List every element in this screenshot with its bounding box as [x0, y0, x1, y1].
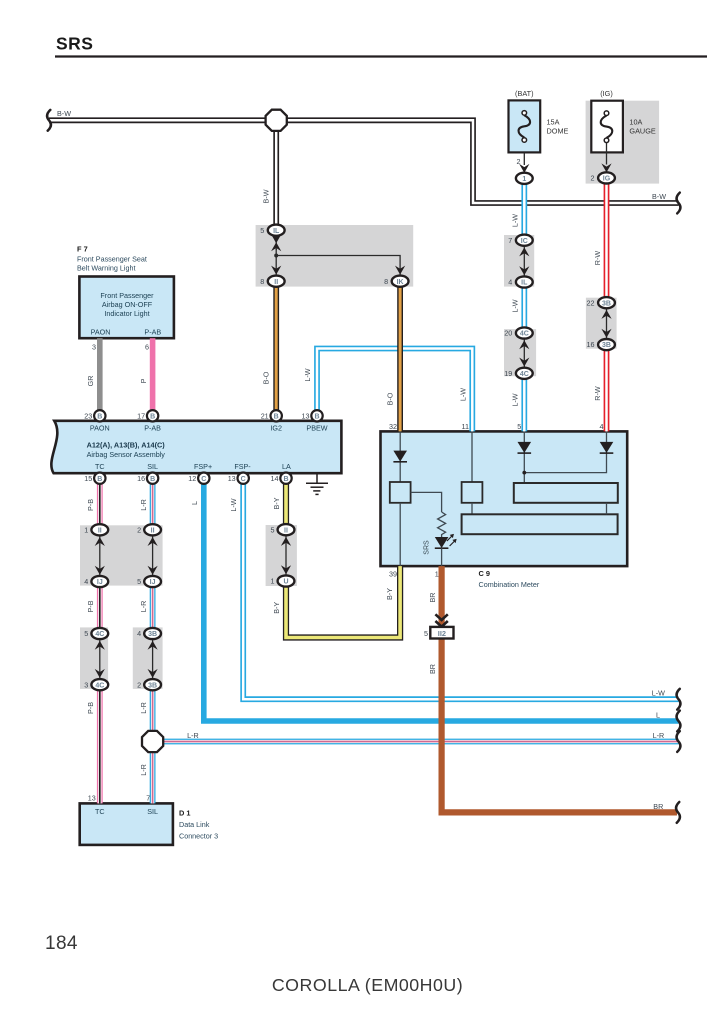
svg-text:L-R: L-R: [139, 702, 148, 714]
svg-text:L-R: L-R: [139, 499, 148, 511]
svg-text:5: 5: [424, 629, 428, 638]
wire L-W PBEW to C9 pin 11: [317, 349, 472, 432]
svg-text:39: 39: [389, 570, 397, 579]
wire B-Y LA seg1: [283, 478, 289, 530]
connector oval II pin 8: [260, 276, 284, 287]
svg-text:5: 5: [137, 577, 141, 586]
svg-text:16: 16: [137, 474, 145, 483]
svg-text:B-W: B-W: [261, 189, 270, 203]
fuse 15A DOME symbol: [519, 111, 531, 143]
F7 inner text: [91, 291, 162, 337]
wire L-W FSP- to right edge: [243, 478, 678, 699]
junction arrows 3B right: [601, 303, 611, 345]
svg-text:Belt Warning Light: Belt Warning Light: [77, 264, 135, 273]
connector oval IC pin 7: [508, 235, 532, 246]
svg-text:5: 5: [84, 629, 88, 638]
junction arrows 3B left: [148, 634, 158, 685]
svg-text:L-R: L-R: [187, 731, 199, 740]
component F7 box: [79, 277, 173, 339]
svg-text:5: 5: [260, 226, 264, 235]
svg-text:IL: IL: [521, 280, 528, 287]
svg-text:DOME: DOME: [547, 126, 569, 135]
svg-text:L-R: L-R: [139, 601, 148, 613]
svg-text:Front Passenger: Front Passenger: [100, 291, 154, 300]
svg-text:4C: 4C: [520, 371, 529, 378]
svg-text:PAON: PAON: [91, 328, 111, 337]
svg-text:B-O: B-O: [385, 392, 394, 405]
svg-text:13: 13: [228, 474, 236, 483]
wire P-B seg2: [97, 582, 103, 634]
svg-text:U: U: [283, 579, 288, 586]
svg-text:COROLLA (EM00H0U): COROLLA (EM00H0U): [272, 975, 463, 995]
connector oval II pin 1: [84, 524, 108, 535]
pin circle airbag pin 13 C: [228, 473, 249, 484]
svg-text:GR: GR: [86, 376, 95, 387]
svg-text:3B: 3B: [148, 682, 157, 689]
pin circle airbag pin 14 B: [271, 473, 292, 484]
svg-text:13: 13: [88, 794, 96, 803]
svg-text:SRS: SRS: [424, 540, 431, 555]
svg-text:B: B: [97, 476, 102, 483]
C9 internal circuit: [390, 431, 618, 566]
junction arrows IC-IL: [519, 240, 529, 282]
svg-text:B-Y: B-Y: [385, 588, 394, 600]
connector block IL/II/IK: [256, 225, 414, 287]
svg-text:B-W: B-W: [652, 192, 666, 201]
C9 pin numbers top: [389, 422, 604, 431]
svg-text:(IG): (IG): [600, 89, 613, 98]
wire break L-W right: [677, 689, 681, 710]
svg-text:3: 3: [84, 680, 88, 689]
svg-text:14: 14: [271, 474, 279, 483]
svg-text:L-R: L-R: [139, 764, 148, 776]
junction octagon L-R tap: [142, 731, 163, 752]
wire R-W fuse-3B segment: [604, 178, 610, 303]
svg-text:PAON: PAON: [90, 423, 110, 432]
connector oval IL pin 4: [508, 276, 532, 287]
svg-text:19: 19: [504, 369, 512, 378]
connector oval 3B pin 2: [137, 679, 161, 690]
connector oval II pin 2: [137, 524, 161, 535]
svg-text:IJ: IJ: [97, 579, 103, 586]
svg-text:Airbag ON-OFF: Airbag ON-OFF: [102, 300, 153, 309]
svg-text:8: 8: [260, 277, 264, 286]
airbag box inner labels: [87, 423, 328, 471]
svg-text:BR: BR: [653, 802, 663, 811]
svg-text:4C: 4C: [95, 682, 104, 689]
pin circle airbag pin 12 C: [188, 473, 209, 484]
connector oval 4C pin 3: [84, 679, 108, 690]
pin circle F7 pin 23 B: [84, 410, 105, 421]
svg-text:1: 1: [271, 577, 275, 586]
svg-text:II: II: [274, 279, 278, 286]
svg-text:21: 21: [261, 411, 269, 420]
junction arrows 4C right: [519, 333, 529, 373]
C9 name: [479, 569, 540, 589]
connector block II/U: [266, 525, 297, 586]
svg-text:L-W: L-W: [510, 214, 519, 227]
svg-text:LA: LA: [282, 462, 291, 471]
connector block 4C left: [80, 627, 108, 689]
wire L-R branch to right edge: [153, 739, 679, 745]
svg-text:II: II: [284, 527, 288, 534]
svg-text:C: C: [241, 476, 246, 483]
wire break right B-W: [677, 193, 681, 214]
D1 pin numbers: [88, 794, 150, 803]
svg-text:L: L: [190, 501, 199, 505]
connector oval 3B pin 16: [587, 339, 615, 350]
svg-text:16: 16: [587, 340, 595, 349]
svg-text:L: L: [656, 710, 660, 719]
svg-text:L-W: L-W: [510, 299, 519, 312]
svg-text:IG: IG: [603, 176, 611, 183]
svg-text:B: B: [97, 413, 102, 420]
svg-text:PBEW: PBEW: [306, 423, 327, 432]
wire R-W 3B-C9 segment: [604, 345, 610, 432]
connector block 3B right: [586, 298, 617, 349]
svg-text:B-Y: B-Y: [272, 602, 281, 614]
connector II2: [424, 627, 454, 639]
D1 inner labels: [95, 807, 158, 816]
svg-text:Front Passenger Seat: Front Passenger Seat: [77, 255, 147, 264]
svg-text:P: P: [139, 378, 148, 383]
F7 pin numbers: [92, 343, 149, 352]
title rule: [55, 55, 707, 57]
svg-text:12: 12: [188, 474, 196, 483]
connector oval IK pin 8: [384, 276, 408, 287]
svg-text:L-W: L-W: [303, 368, 312, 381]
connector oval 4C pin 5: [84, 628, 108, 639]
svg-text:2: 2: [517, 157, 521, 166]
svg-text:4: 4: [508, 278, 512, 287]
svg-text:L-W: L-W: [652, 689, 665, 698]
svg-text:BR: BR: [428, 664, 437, 674]
svg-text:3B: 3B: [602, 342, 611, 349]
svg-text:1: 1: [84, 525, 88, 534]
pin circle airbag pin 13 B: [302, 410, 323, 421]
svg-text:L-W: L-W: [510, 393, 519, 406]
C9 pin numbers bottom: [389, 570, 439, 579]
connector oval U pin 1: [271, 575, 295, 586]
wire B-Y seg2 to C9 pin 39: [286, 566, 400, 637]
svg-text:IG2: IG2: [270, 423, 282, 432]
svg-text:5: 5: [271, 525, 275, 534]
svg-text:20: 20: [504, 329, 512, 338]
wire L-W 4C-C9 segment: [521, 373, 527, 431]
pin circle F7 pin 17 B: [137, 410, 158, 421]
svg-text:4C: 4C: [95, 631, 104, 638]
svg-text:L-R: L-R: [653, 731, 665, 740]
wire break L right: [677, 711, 681, 732]
connector oval IL pin 5: [260, 225, 284, 236]
junction arrows 4C left: [95, 634, 105, 685]
fuse 15A DOME box: [509, 100, 541, 152]
svg-text:SRS: SRS: [56, 34, 93, 54]
svg-text:B-O: B-O: [262, 371, 271, 384]
svg-text:FSP-: FSP-: [234, 462, 251, 471]
svg-text:TC: TC: [95, 807, 105, 816]
svg-text:II2: II2: [438, 629, 446, 638]
svg-text:22: 22: [587, 298, 595, 307]
svg-text:7: 7: [146, 794, 150, 803]
svg-text:IC: IC: [521, 238, 528, 245]
svg-text:SIL: SIL: [147, 807, 158, 816]
svg-text:2: 2: [137, 680, 141, 689]
wire L-R seg3 to D1: [150, 685, 156, 804]
svg-text:3B: 3B: [602, 300, 611, 307]
svg-text:B-Y: B-Y: [272, 497, 281, 509]
svg-text:IL: IL: [273, 228, 280, 235]
svg-text:L-W: L-W: [229, 498, 238, 511]
svg-text:2: 2: [591, 174, 595, 183]
svg-text:3B: 3B: [148, 631, 157, 638]
wire L-R SIL seg1: [150, 478, 156, 530]
svg-text:A12(A), A13(B), A14(C): A12(A), A13(B), A14(C): [87, 441, 166, 450]
svg-text:D 1: D 1: [179, 809, 191, 818]
junction octagon B-W tap: [266, 110, 287, 131]
svg-text:Combination Meter: Combination Meter: [479, 580, 540, 589]
svg-text:1: 1: [435, 570, 439, 579]
connector block IG gauge area: [586, 101, 660, 184]
junction node and branch IL/II/IK: [271, 249, 405, 277]
wire P wire F7 pin6: [150, 338, 156, 416]
svg-text:P-B: P-B: [86, 600, 95, 612]
wire L FSP+ to right edge: [204, 478, 679, 721]
wire B-O IK to C9 pin 32: [397, 287, 403, 432]
svg-text:2: 2: [137, 525, 141, 534]
svg-text:17: 17: [137, 411, 145, 420]
svg-text:4: 4: [600, 422, 604, 431]
wire B-W drop to IL: [273, 120, 279, 230]
svg-text:10A: 10A: [629, 117, 642, 126]
wire L-W IL-4C segment: [521, 282, 527, 333]
svg-text:P-B: P-B: [86, 499, 95, 511]
svg-text:P-B: P-B: [86, 702, 95, 714]
svg-text:L-W: L-W: [459, 388, 468, 401]
svg-text:11: 11: [462, 422, 469, 431]
svg-text:7: 7: [508, 236, 512, 245]
junction arrows II-IJ col TC: [95, 530, 105, 582]
svg-text:SIL: SIL: [147, 462, 158, 471]
svg-text:B: B: [274, 413, 279, 420]
svg-text:II: II: [151, 527, 155, 534]
svg-text:IJ: IJ: [150, 579, 156, 586]
ground symbol: [306, 473, 328, 494]
svg-text:184: 184: [45, 933, 78, 954]
svg-text:F 7: F 7: [77, 245, 88, 254]
pin circle airbag pin 16 B: [137, 473, 158, 484]
fuse BAT pin 2 lead: [517, 152, 530, 173]
svg-text:4C: 4C: [520, 331, 529, 338]
connector oval II pin 5: [271, 524, 295, 535]
svg-text:23: 23: [84, 411, 92, 420]
component D1 Data Link Connector box: [80, 803, 173, 845]
svg-text:P-AB: P-AB: [144, 423, 161, 432]
pin circle airbag pin 21 B: [261, 410, 282, 421]
connector oval IG pin 2: [591, 172, 615, 183]
connector oval IJ pin 5: [137, 576, 161, 587]
D1 name: [179, 809, 218, 841]
svg-text:1: 1: [522, 176, 526, 183]
svg-text:IK: IK: [397, 279, 404, 286]
wire break BR right: [676, 802, 680, 823]
connector block II/IJ: [80, 525, 163, 585]
svg-text:Connector 3: Connector 3: [179, 832, 218, 841]
svg-text:13: 13: [302, 411, 310, 420]
fuse IG labels: [600, 89, 656, 135]
svg-text:C: C: [201, 476, 206, 483]
fuse BAT labels: [515, 89, 568, 135]
svg-text:15: 15: [84, 474, 92, 483]
wire break L-R right: [677, 731, 681, 752]
svg-text:4: 4: [84, 577, 88, 586]
wire GR wire F7 pin3: [97, 338, 103, 416]
junction arrows II-IJ col SIL: [148, 530, 158, 582]
wire P-B TC seg1: [97, 478, 103, 530]
svg-text:B: B: [150, 476, 155, 483]
fuse IG pin 2 lead: [601, 143, 611, 173]
svg-text:4: 4: [137, 629, 141, 638]
svg-text:GAUGE: GAUGE: [629, 126, 655, 135]
svg-text:6: 6: [145, 343, 149, 352]
junction arrows IL-II: [271, 234, 281, 251]
connector oval 4C pin 19: [504, 368, 532, 379]
svg-text:(BAT): (BAT): [515, 89, 534, 98]
svg-text:R-W: R-W: [593, 386, 602, 401]
connector oval 3B pin 22: [587, 297, 615, 308]
wire L-W fuse-IC segment: [521, 178, 527, 240]
svg-text:8: 8: [384, 277, 388, 286]
pin circle airbag pin 15 B: [84, 473, 105, 484]
junction arrows II-U: [281, 530, 291, 581]
connector oval fuse output 1: [516, 173, 533, 184]
connector block IC/IL: [504, 235, 534, 287]
wire B-W main feed: [49, 120, 679, 203]
connector block 3B left: [133, 627, 163, 689]
svg-text:P-AB: P-AB: [144, 328, 161, 337]
svg-text:B: B: [314, 413, 319, 420]
svg-text:R-W: R-W: [593, 251, 602, 266]
F7 designator text: [77, 245, 147, 273]
svg-text:Airbag Sensor Assembly: Airbag Sensor Assembly: [87, 450, 166, 459]
wire BR C9 pin1 to right edge: [442, 566, 677, 812]
svg-text:B: B: [150, 413, 155, 420]
svg-text:Indicator Light: Indicator Light: [104, 309, 149, 318]
wire B-O II to IG2: [273, 287, 279, 416]
svg-text:32: 32: [389, 422, 397, 431]
component Airbag Sensor Assembly box: [51, 421, 341, 473]
wire L-R seg2: [150, 582, 156, 634]
connector oval 3B pin 4: [137, 628, 161, 639]
svg-text:15A: 15A: [547, 117, 560, 126]
connector oval IJ pin 4: [84, 576, 108, 587]
svg-text:C 9: C 9: [479, 569, 491, 578]
BR inline arrow chevrons: [435, 614, 447, 626]
connector oval 4C pin 20: [504, 327, 532, 338]
svg-text:5: 5: [517, 422, 521, 431]
fuse 10A GAUGE box: [591, 101, 623, 153]
component C9 Combination Meter box: [381, 431, 628, 566]
svg-text:BR: BR: [428, 593, 437, 603]
svg-text:3: 3: [92, 343, 96, 352]
wire break left B-W: [47, 110, 51, 131]
svg-text:Data Link: Data Link: [179, 820, 210, 829]
wire P-B seg3 to D1: [97, 685, 103, 804]
connector block 4C right: [504, 329, 536, 376]
svg-text:TC: TC: [95, 462, 105, 471]
svg-text:II: II: [98, 527, 102, 534]
svg-text:FSP+: FSP+: [194, 462, 212, 471]
svg-text:B-W: B-W: [57, 109, 71, 118]
svg-text:B: B: [283, 476, 288, 483]
fuse 10A GAUGE symbol: [601, 111, 613, 143]
